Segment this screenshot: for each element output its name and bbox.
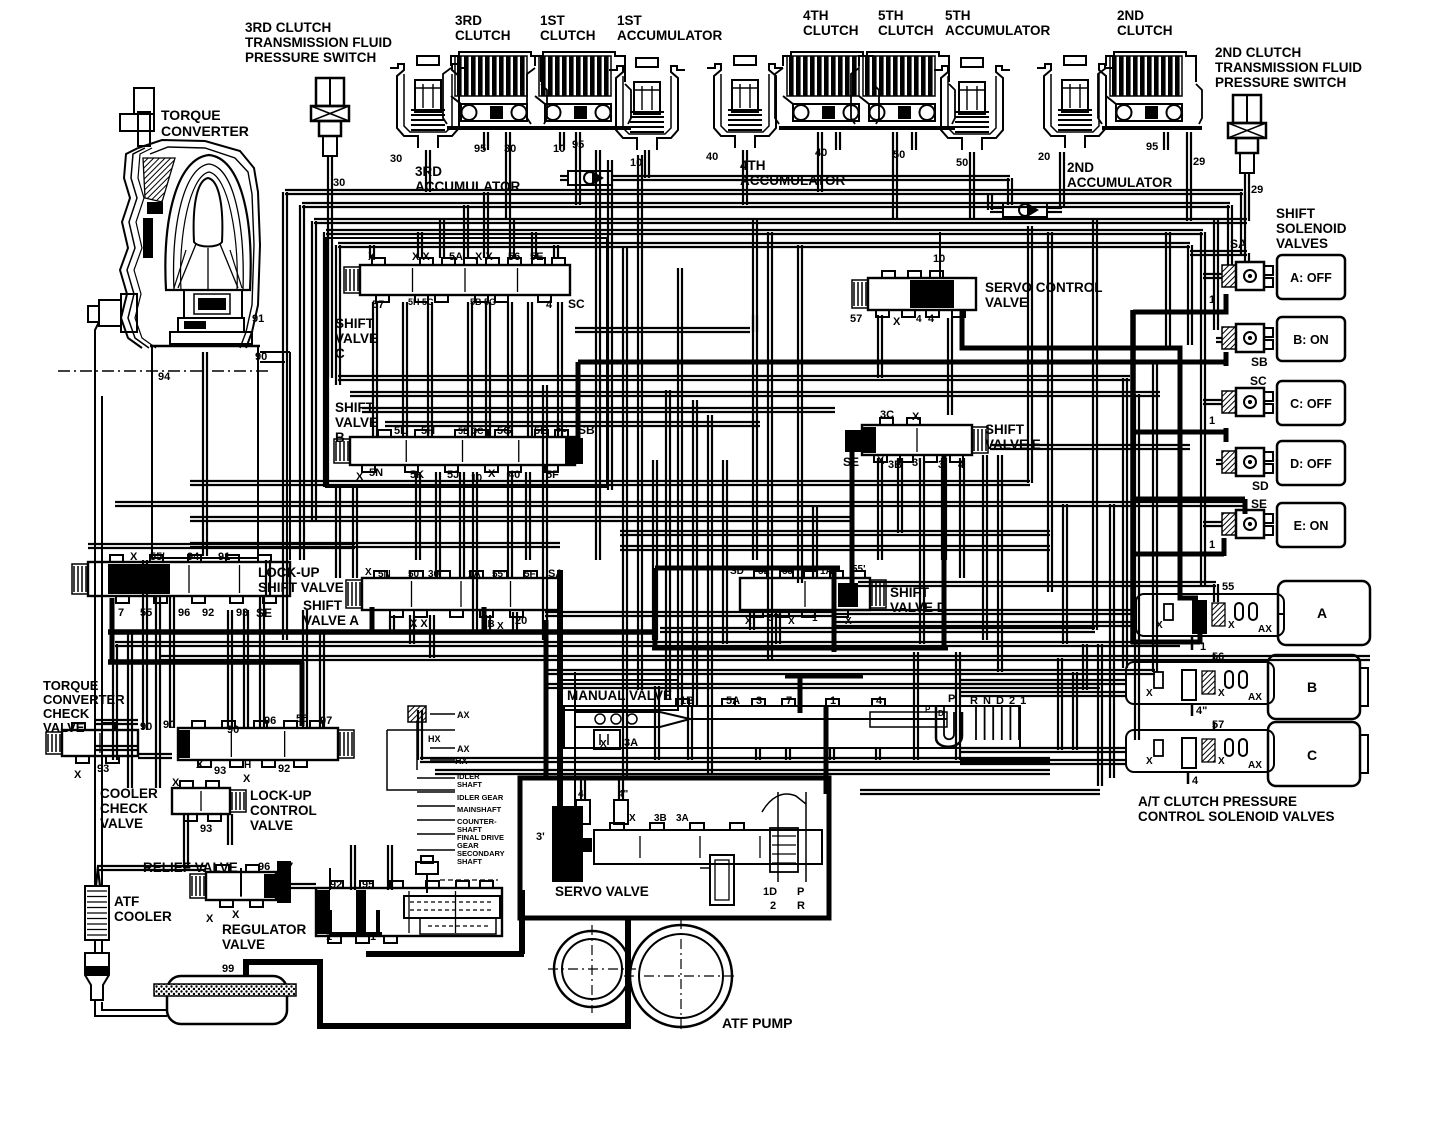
svg-text:B: B (1307, 679, 1317, 695)
wire mid bundle y614 (545, 611, 835, 613)
svg-text:CLUTCH: CLUTCH (540, 28, 596, 43)
svg-text:40: 40 (815, 147, 827, 159)
solenoid CPC B (1126, 662, 1274, 704)
svg-text:CHECK: CHECK (43, 706, 90, 721)
wire valve E port verticals (620, 445, 1190, 760)
svg-text:1D: 1D (763, 886, 777, 898)
wire solenoid C D feed thick (1133, 428, 1226, 442)
solenoid box D OFF (1277, 441, 1345, 485)
svg-text:VALVES: VALVES (1276, 236, 1328, 251)
accumulator 2ND ACCUMULATOR (1037, 56, 1113, 148)
clutch 5TH CLUTCH (851, 52, 955, 128)
svg-text:ACCUMULATOR: ACCUMULATOR (415, 179, 520, 194)
svg-text:SHIFT: SHIFT (335, 400, 375, 415)
svg-text:CHECK: CHECK (100, 801, 148, 816)
node valve D left black end (838, 583, 858, 607)
svg-text:1B: 1B (482, 619, 495, 630)
wire SE thick vertical (850, 452, 855, 586)
svg-text:X: X (74, 769, 82, 781)
svg-text:92: 92 (202, 607, 214, 619)
svg-text:1: 1 (830, 695, 836, 707)
svg-text:1ST: 1ST (617, 13, 643, 28)
svg-text:3C: 3C (880, 409, 894, 421)
svg-text:TORQUE: TORQUE (161, 107, 221, 123)
solenoid CPC C (1126, 730, 1274, 772)
svg-text:VALVE: VALVE (250, 818, 293, 833)
orifice check valve near 2nd accumulator (1003, 203, 1047, 217)
servo valve body (594, 823, 822, 864)
valve SHIFT VALVE B (334, 430, 575, 472)
svg-text:P: P (948, 693, 955, 705)
svg-text:95: 95 (572, 139, 584, 151)
wire cooler to funnel (95, 940, 167, 1016)
svg-text:SHIFT: SHIFT (303, 598, 343, 613)
valve SHIFT VALVE D (740, 571, 886, 617)
ATF pump gear 1 (548, 925, 636, 1013)
servo assembly enclosure (520, 778, 829, 918)
svg-text:A: A (1317, 605, 1327, 621)
CPC box C (1268, 722, 1360, 786)
svg-text:VALVE: VALVE (335, 331, 378, 346)
svg-text:1: 1 (1200, 641, 1206, 653)
clutch 3RD CLUTCH (443, 52, 547, 128)
pressure switch 3RD CLUTCH TPS (311, 78, 349, 156)
svg-text:55': 55' (150, 551, 165, 563)
svg-text:92: 92 (278, 763, 290, 775)
CPC box B side tab (1360, 668, 1368, 706)
svg-text:3RD: 3RD (415, 164, 442, 179)
svg-text:3RD CLUTCH: 3RD CLUTCH (245, 20, 331, 35)
svg-text:X: X (1218, 756, 1225, 767)
svg-text:55': 55' (492, 569, 506, 580)
manual valve small box X 3A (594, 730, 620, 749)
wire center vertical bundle (543, 155, 1097, 778)
svg-text:VALVE: VALVE (222, 937, 265, 952)
wire solenoid E feed thick (1131, 499, 1245, 644)
valve LOCK-UP SHIFT VALVE (72, 555, 290, 603)
svg-text:93: 93 (200, 823, 212, 835)
valve LOCK-UP CONTROL VALVE (178, 721, 354, 767)
svg-text:COOLER: COOLER (114, 909, 172, 924)
wire clutch feed lines (328, 132, 1249, 378)
svg-text:X: X (130, 551, 138, 563)
svg-text:95: 95 (362, 879, 374, 891)
node valve E left black end (845, 430, 863, 452)
svg-text:96: 96 (264, 715, 276, 727)
node relief valve black slab (277, 861, 291, 903)
svg-text:30: 30 (504, 143, 516, 155)
node SB thick line (565, 362, 1226, 464)
svg-text:5J: 5J (447, 469, 459, 481)
svg-text:TRANSMISSION FLUID: TRANSMISSION FLUID (245, 35, 392, 50)
svg-text:X: X (629, 813, 636, 824)
wire CPC feeds (835, 610, 1214, 784)
svg-text:RELIEF VALVE: RELIEF VALVE (143, 860, 238, 875)
svg-text:X: X (232, 909, 240, 921)
svg-text:5A: 5A (726, 695, 740, 707)
valve RELIEF VALVE (190, 865, 276, 907)
wire pump suction thick (246, 918, 628, 1026)
solenoid shift solenoid D (1222, 448, 1273, 476)
svg-text:3RD: 3RD (455, 13, 482, 28)
svg-text:92: 92 (330, 879, 342, 891)
accumulator 1ST ACCUMULATOR (609, 58, 685, 150)
svg-text:4: 4 (1192, 775, 1199, 787)
svg-text:4TH: 4TH (740, 158, 766, 173)
svg-text:3B: 3B (654, 813, 667, 824)
svg-text:SHIFT: SHIFT (890, 585, 930, 600)
svg-text:PRESSURE SWITCH: PRESSURE SWITCH (1215, 75, 1346, 90)
svg-text:91: 91 (218, 551, 230, 563)
valve COOLER CHECK VALVE (172, 781, 246, 821)
svg-text:E: ON: E: ON (1294, 519, 1329, 533)
svg-text:SERVO VALVE: SERVO VALVE (555, 884, 649, 899)
svg-text:4: 4 (928, 313, 935, 325)
svg-text:20: 20 (1038, 151, 1050, 163)
svg-text:97: 97 (320, 715, 332, 727)
svg-text:SERVO CONTROL: SERVO CONTROL (985, 280, 1103, 295)
svg-text:91: 91 (252, 313, 264, 325)
valve REGULATOR VALVE (316, 881, 502, 943)
svg-text:4: 4 (916, 314, 922, 325)
wire SA line (1190, 251, 1249, 263)
wire enclosure valve C B (326, 238, 607, 487)
svg-text:AX: AX (1248, 692, 1262, 703)
svg-text:VALVE: VALVE (100, 816, 143, 831)
svg-text:5B 5G: 5B 5G (470, 297, 496, 307)
wire left low bundle (95, 487, 357, 788)
svg-text:SC: SC (1250, 374, 1267, 388)
wire TC to bus left (95, 322, 290, 886)
svg-text:10: 10 (630, 157, 642, 169)
svg-text:ACCUMULATOR: ACCUMULATOR (945, 23, 1050, 38)
solenoid shift solenoid E (1222, 510, 1273, 538)
ATF cooler (85, 886, 109, 940)
torque converter case (58, 346, 268, 558)
svg-text:C: C (1307, 747, 1317, 763)
svg-text:SB: SB (1251, 355, 1268, 369)
svg-text:PRESSURE SWITCH: PRESSURE SWITCH (245, 50, 376, 65)
svg-text:X: X (1218, 688, 1225, 699)
svg-text:93: 93 (97, 763, 109, 775)
svg-text:SHAFT: SHAFT (457, 780, 482, 789)
svg-text:30: 30 (333, 177, 345, 189)
svg-text:4TH: 4TH (803, 8, 829, 23)
wire solenoid left stubs (1203, 274, 1222, 526)
servo bolt (700, 855, 734, 905)
svg-text:50: 50 (956, 157, 968, 169)
svg-text:X: X (1156, 620, 1163, 631)
svg-text:5N: 5N (369, 467, 383, 479)
svg-text:MANUAL VALVE: MANUAL VALVE (567, 688, 672, 703)
svg-text:AX: AX (457, 744, 470, 754)
wire valve A bottom stubs (390, 612, 517, 658)
wire top bus bundle (283, 190, 1247, 640)
svg-text:3A: 3A (624, 737, 638, 749)
svg-text:96: 96 (258, 861, 270, 873)
svg-text:SA: SA (1230, 237, 1247, 251)
valve SERVO CONTROL VALVE (852, 271, 976, 317)
svg-text:B: B (335, 430, 345, 445)
svg-text:X: X (1146, 688, 1153, 699)
svg-text:CLUTCH: CLUTCH (878, 23, 934, 38)
svg-text:ACCUMULATOR: ACCUMULATOR (617, 28, 722, 43)
svg-text:X: X (243, 773, 251, 785)
svg-text:5TH: 5TH (945, 8, 971, 23)
svg-text:X: X (1228, 620, 1235, 631)
hatch square (408, 706, 426, 722)
svg-text:LOCK-UP: LOCK-UP (258, 565, 320, 580)
solenoid CPC A (1136, 594, 1284, 636)
svg-text:1: 1 (1209, 294, 1215, 306)
svg-text:5F: 5F (524, 569, 536, 580)
clutch 1ST CLUTCH (527, 52, 631, 128)
wire valve D bottom stubs (750, 612, 780, 644)
svg-text:X: X (600, 739, 607, 750)
svg-text:7: 7 (118, 607, 124, 619)
svg-text:50: 50 (893, 149, 905, 161)
svg-text:29: 29 (1193, 156, 1205, 168)
wire lower horizontal bundle (115, 628, 1370, 688)
svg-text:CONTROL: CONTROL (250, 803, 317, 818)
svg-text:REGULATOR: REGULATOR (222, 922, 307, 937)
svg-text:VALVE: VALVE (985, 295, 1028, 310)
clutch 4TH CLUTCH (775, 52, 879, 128)
svg-text:X: X (788, 616, 795, 627)
svg-text:5N: 5N (378, 569, 391, 580)
svg-text:1ST: 1ST (540, 13, 566, 28)
svg-text:HX: HX (428, 734, 441, 744)
svg-text:CLUTCH: CLUTCH (803, 23, 859, 38)
wire right vertical bundle (1098, 232, 1170, 786)
svg-text:SB: SB (578, 423, 595, 437)
svg-text:99: 99 (222, 963, 234, 975)
svg-text:2ND: 2ND (1117, 8, 1144, 23)
svg-text:P: P (797, 886, 804, 898)
svg-text:COOLER: COOLER (100, 786, 158, 801)
wire servo control valve port3 thick (962, 310, 1198, 598)
svg-text:5L: 5L (394, 425, 407, 437)
wire valve C to valve B verticals (373, 302, 562, 630)
svg-text:2ND CLUTCH: 2ND CLUTCH (1215, 45, 1301, 60)
svg-text:B: ON: B: ON (1293, 333, 1328, 347)
svg-text:4": 4" (1196, 705, 1207, 717)
wire thick line 1 below lockup valve (108, 598, 655, 726)
wire 10 to servo control valve (939, 232, 941, 278)
svg-text:VALVE D: VALVE D (890, 600, 947, 615)
svg-text:30: 30 (428, 569, 440, 580)
svg-text:50: 50 (408, 569, 420, 580)
svg-text:3B: 3B (888, 459, 902, 471)
regulator second stage spool (351, 845, 500, 934)
svg-text:MAINSHAFT: MAINSHAFT (457, 805, 502, 814)
svg-text:29: 29 (1251, 184, 1263, 196)
solenoid box C OFF (1277, 381, 1345, 425)
svg-text:A/T CLUTCH PRESSURE: A/T CLUTCH PRESSURE (1138, 794, 1297, 809)
wire right thick backbone (1130, 310, 1136, 644)
svg-text:X: X (497, 621, 504, 632)
svg-text:SHAFT: SHAFT (457, 857, 482, 866)
svg-text:C: C (335, 346, 345, 361)
svg-text:10: 10 (553, 143, 565, 155)
solenoid box E ON (1277, 503, 1345, 547)
svg-text:5G: 5G (497, 425, 512, 437)
svg-text:X: X (206, 913, 214, 925)
svg-text:5F: 5F (546, 469, 559, 481)
valve SHIFT VALVE A (346, 571, 560, 617)
accumulator 3RD ACCUMULATOR (390, 56, 466, 148)
wire servo box top bus (418, 644, 1100, 800)
svg-text:4: 4 (876, 695, 883, 707)
svg-text:5H 5C: 5H 5C (408, 297, 434, 307)
svg-text:X: X (172, 777, 180, 789)
svg-text:SHIFT: SHIFT (985, 422, 1025, 437)
wire 55 line to CPC A (858, 582, 1218, 602)
svg-text:57: 57 (768, 613, 780, 624)
svg-text:VALVE A: VALVE A (303, 613, 359, 628)
valve TORQUE CONVERTER CHECK VALVE (46, 723, 138, 763)
svg-text:57: 57 (850, 313, 862, 325)
CPC box A (1278, 581, 1370, 645)
svg-text:40: 40 (508, 469, 520, 481)
svg-text:C: OFF: C: OFF (1290, 397, 1332, 411)
svg-text:40: 40 (706, 151, 718, 163)
svg-text:30: 30 (390, 153, 402, 165)
svg-text:IDLER GEAR: IDLER GEAR (457, 793, 504, 802)
svg-text:VALVE: VALVE (43, 720, 85, 735)
svg-text:55: 55 (1222, 581, 1234, 593)
svg-text:SHIFT: SHIFT (335, 316, 375, 331)
svg-text:SC: SC (568, 297, 585, 311)
svg-text:1: 1 (1209, 539, 1215, 551)
svg-text:3': 3' (536, 831, 545, 843)
svg-text:CONTROL SOLENOID VALVES: CONTROL SOLENOID VALVES (1138, 809, 1335, 824)
valve SHIFT VALVE E (862, 418, 988, 462)
valve SHIFT VALVE C (344, 258, 570, 302)
svg-text:P: P (925, 705, 931, 714)
wire CPC A to box (1278, 613, 1284, 615)
shaft comb bracket (387, 706, 455, 850)
svg-text:94: 94 (187, 551, 200, 563)
clutch 2ND CLUTCH (1098, 52, 1202, 128)
ATF funnel (85, 953, 109, 1000)
wire relief regulator links (96, 570, 575, 896)
svg-text:ACCUMULATOR: ACCUMULATOR (1067, 175, 1172, 190)
svg-text:CLUTCH: CLUTCH (1117, 23, 1173, 38)
svg-text:ATF: ATF (114, 894, 139, 909)
wire servo control valve port lines (575, 315, 882, 378)
svg-text:TRANSMISSION FLUID: TRANSMISSION FLUID (1215, 60, 1362, 75)
svg-text:LOCK-UP: LOCK-UP (250, 788, 312, 803)
svg-text:ACCUMULATOR: ACCUMULATOR (740, 173, 845, 188)
svg-text:AX: AX (1248, 760, 1262, 771)
svg-text:VALVE: VALVE (335, 415, 378, 430)
svg-text:X: X (488, 468, 496, 480)
wire mid horizontal bundle 2 (88, 481, 1245, 548)
svg-text:X: X (1146, 756, 1153, 767)
wire mid horizontal bundle 1 (338, 376, 1160, 426)
servo piston black blob (552, 806, 592, 882)
svg-text:7: 7 (786, 695, 792, 707)
svg-text:5A: 5A (449, 251, 463, 263)
svg-text:AX: AX (457, 710, 470, 720)
svg-text:95: 95 (1146, 141, 1158, 153)
svg-text:X: X (365, 567, 372, 578)
svg-text:1B: 1B (680, 695, 694, 707)
solenoid shift solenoid B (1222, 324, 1273, 352)
wire thick ladder below valve D (546, 455, 948, 794)
pressure switch 2ND CLUTCH TPS (1228, 95, 1266, 173)
solenoid box B ON (1277, 317, 1345, 361)
valve MANUAL VALVE (562, 680, 1020, 748)
svg-text:93: 93 (236, 607, 248, 619)
svg-text:CONVERTER: CONVERTER (161, 123, 249, 139)
svg-text:55': 55' (852, 564, 866, 575)
svg-text:D: OFF: D: OFF (1290, 457, 1332, 471)
torque converter (88, 88, 260, 348)
svg-text:96: 96 (178, 607, 190, 619)
svg-text:95: 95 (474, 143, 486, 155)
orifice check valve near 1st accumulator (568, 171, 612, 185)
wire valve C top port stubs (370, 192, 558, 258)
svg-text:A: OFF: A: OFF (1290, 271, 1332, 285)
svg-text:X X: X X (410, 618, 428, 630)
svg-text:5TH: 5TH (878, 8, 904, 23)
svg-text:X: X (912, 411, 920, 423)
svg-text:SHIFT VALVE: SHIFT VALVE (258, 580, 344, 595)
svg-text:CLUTCH: CLUTCH (455, 28, 511, 43)
svg-text:SHIFT: SHIFT (1276, 206, 1316, 221)
svg-text:4: 4 (546, 299, 553, 311)
solenoid shift solenoid C (1222, 388, 1273, 416)
svg-text:1: 1 (1209, 415, 1215, 427)
svg-text:2: 2 (770, 900, 776, 912)
servo spring and arm (762, 792, 806, 882)
svg-text:X: X (196, 759, 204, 771)
svg-text:R: R (797, 900, 805, 912)
accumulator 5TH ACCUMULATOR (934, 58, 1010, 150)
CPC box C side tab (1360, 735, 1368, 773)
svg-text:ATF PUMP: ATF PUMP (722, 1015, 793, 1031)
svg-text:5E: 5E (534, 425, 547, 437)
svg-text:2ND: 2ND (1067, 160, 1094, 175)
svg-text:94: 94 (158, 371, 171, 383)
svg-text:1: 1 (812, 613, 818, 624)
svg-text:1A: 1A (468, 569, 481, 580)
svg-text:SD: SD (1252, 479, 1269, 493)
wire orifice 2 link (1047, 207, 1062, 209)
ATF pump gear 2 (624, 919, 738, 1033)
svg-text:TORQUE: TORQUE (43, 678, 99, 693)
svg-text:93: 93 (214, 765, 226, 777)
wire solenoid B feed thick (1224, 352, 1229, 366)
svg-text:AX: AX (1258, 624, 1272, 635)
solenoid box A OFF (1277, 255, 1345, 299)
svg-text:SOLENOID: SOLENOID (1276, 221, 1347, 236)
svg-text:D: D (938, 709, 944, 718)
svg-text:X: X (893, 316, 901, 328)
wire solenoid A feed thick (1133, 294, 1226, 312)
svg-text:3A: 3A (676, 813, 689, 824)
strainer (154, 976, 296, 1024)
svg-text:3: 3 (756, 695, 762, 707)
accumulator 4TH ACCUMULATOR (707, 56, 783, 148)
servo ports 4' 4'' (576, 800, 628, 824)
solenoid shift solenoid A (1222, 262, 1273, 290)
CPC box B (1268, 655, 1360, 719)
svg-text:H: H (244, 760, 251, 771)
svg-text:X: X (356, 471, 364, 483)
